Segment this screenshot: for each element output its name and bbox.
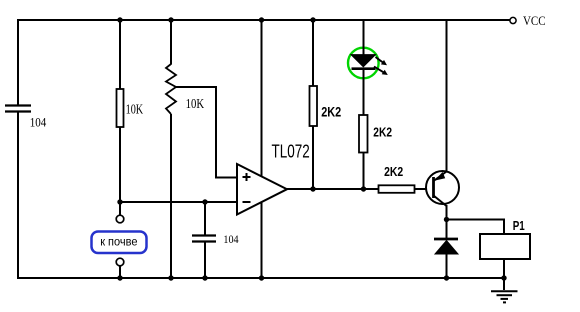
svg-text:TL072: TL072: [272, 142, 310, 162]
op-amp U1 plus sign: [243, 173, 251, 181]
wire Q1 emitter to VCC rail: [446, 20, 448, 172]
node dot bottom rail probe: [117, 275, 122, 280]
svg-text:104: 104: [30, 114, 47, 129]
svg-text:2K2: 2K2: [384, 164, 403, 179]
svg-text:к почве: к почве: [100, 235, 138, 249]
wire Q1 collector down: [446, 205, 448, 220]
wire R1 bottom: [119, 127, 121, 203]
wire LED top: [363, 20, 365, 55]
resistor R2 body: [310, 86, 318, 126]
node dot top rail at pot: [168, 17, 173, 22]
wire R3 bottom: [363, 153, 365, 191]
wire R1 top: [119, 20, 121, 90]
LED D2 arrow 2: [374, 67, 388, 76]
wire diode bottom: [446, 253, 448, 279]
transistor Q1 collector diagonal: [434, 196, 447, 207]
op-amp U1 triangle: [237, 164, 287, 215]
wire ground stem: [503, 278, 505, 290]
node dot top rail at R1: [117, 17, 122, 22]
diode D1 cathode bar: [434, 238, 458, 241]
wire bottom ground rail: [17, 277, 504, 279]
wire probe upper: [119, 202, 121, 216]
wire op-amp V+ pin: [261, 20, 263, 176]
svg-text:VCC: VCC: [523, 14, 546, 28]
capacitor C2 plates: [192, 236, 216, 242]
svg-text:10K: 10K: [186, 97, 205, 112]
diode D1 triangle: [435, 241, 458, 255]
VCC terminal: [510, 17, 516, 23]
node dot top rail op-amp: [259, 17, 264, 22]
node dot output R2: [310, 186, 315, 191]
wire inverting input: [119, 201, 237, 203]
transistor Q1 emitter arrow: [435, 172, 446, 181]
relay P1 body: [480, 234, 530, 259]
potentiometer RP1 zigzag: [166, 64, 176, 114]
wire left rail upper: [17, 19, 19, 105]
wire collector to relay: [447, 220, 505, 235]
resistor R3 body: [359, 115, 368, 153]
probe box к почве: [92, 232, 147, 254]
wire R2 top: [312, 20, 314, 87]
wire probe lower: [119, 266, 121, 280]
resistor R4 body: [379, 185, 415, 193]
wire pot bottom leg: [170, 114, 172, 279]
node dot bottom rail relay: [501, 275, 506, 280]
LED D2 arrow 1: [376, 57, 388, 65]
node dot bottom rail op-amp: [259, 275, 264, 280]
wire C2 top: [204, 202, 206, 235]
ground: [491, 291, 518, 302]
LED D2 green circle: [348, 48, 379, 79]
wire C2 bottom: [204, 242, 206, 279]
node A junction dot: [117, 199, 122, 204]
wire op-amp V- pin: [261, 202, 263, 279]
terminal circle upper probe: [116, 215, 124, 223]
wire left rail lower: [17, 113, 19, 280]
node dot bottom rail pot leg: [168, 275, 173, 280]
wire diode top: [446, 220, 448, 239]
transistor Q1 circle: [426, 171, 459, 204]
svg-text:104: 104: [223, 232, 238, 246]
wire op-amp output: [286, 188, 379, 190]
wire R2 bottom: [312, 126, 314, 190]
node dot top rail R2: [310, 17, 315, 22]
wire R4 to base: [415, 188, 435, 190]
LED D2 triangle: [351, 55, 376, 67]
svg-text:2K2: 2K2: [373, 124, 392, 139]
svg-text:10K: 10K: [126, 103, 144, 118]
LED D2 cathode bar: [352, 67, 376, 70]
wire pot top: [170, 20, 172, 65]
transistor Q1 emitter diagonal: [434, 172, 447, 182]
capacitor C1 plates: [5, 106, 31, 112]
node dot bottom rail C2: [202, 275, 207, 280]
wire LED bottom to R3: [363, 70, 365, 116]
wire top VCC rail: [17, 19, 510, 21]
wire pot wiper to op-amp plus input: [176, 87, 236, 178]
transistor Q1 base bar: [432, 177, 435, 198]
node junction dot capacitor C2 tap: [202, 199, 207, 204]
node dot output R3: [361, 186, 366, 191]
resistor R1 body: [117, 89, 124, 127]
op-amp U1 minus sign: [243, 201, 251, 203]
svg-text:P1: P1: [513, 218, 525, 233]
node dot bottom rail diode: [444, 275, 449, 280]
node dot collector junction: [444, 217, 449, 222]
wire relay bottom: [503, 259, 505, 279]
terminal circle lower probe: [116, 258, 124, 266]
svg-text:2K2: 2K2: [321, 104, 341, 120]
